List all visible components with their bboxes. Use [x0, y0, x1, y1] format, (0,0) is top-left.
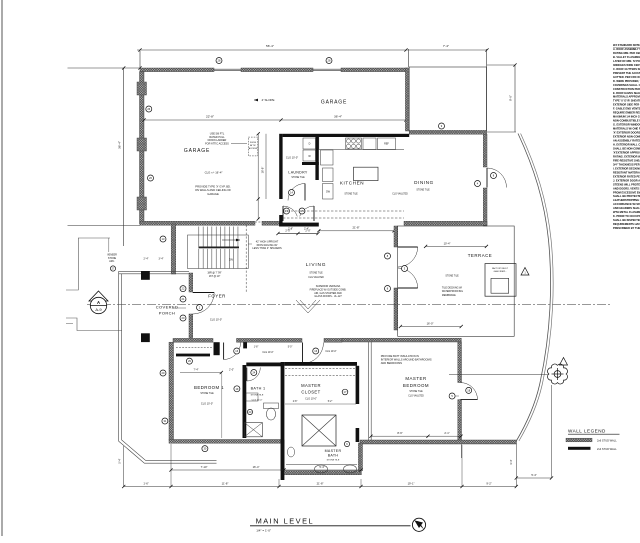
roofing notes column (right edge)	[613, 43, 640, 230]
svg-text:MASTER: MASTER	[405, 376, 426, 381]
laundry west wall upper	[279, 134, 282, 199]
svg-text:2'-8": 2'-8"	[293, 401, 298, 403]
closet east wall lower	[356, 428, 360, 442]
kitchen oven box	[363, 138, 376, 150]
svg-text:DINING: DINING	[414, 180, 434, 185]
kitchen floor break dashed lines	[283, 210, 404, 212]
svg-text:2'-8": 2'-8"	[288, 227, 293, 230]
svg-text:H. EXTERIOR WALL COVERING MATE: H. EXTERIOR WALL COVERING MATERIALS	[613, 143, 640, 147]
svg-text:1'-6": 1'-6"	[143, 481, 148, 485]
keynote triangle above tree	[560, 358, 568, 366]
hall east wall thin double line	[367, 342, 369, 442]
terrace french door lower	[398, 268, 418, 288]
svg-text:MASTER: MASTER	[301, 383, 321, 388]
veneer leader line	[108, 238, 110, 252]
section marker A/A-9	[89, 291, 108, 314]
svg-text:MATERIALS APPROVED FOR A MIN.: MATERIALS APPROVED FOR A MIN. 1-HR OR	[613, 95, 640, 99]
svg-text:ATTIC: ATTIC	[250, 144, 256, 147]
master bedroom north wall	[342, 338, 461, 342]
svg-text:GARAGE: GARAGE	[184, 148, 210, 154]
kitchen west counter with sink	[321, 150, 334, 165]
keynote 9 in stoop	[439, 123, 445, 129]
dashed line stair/foyer	[245, 225, 247, 292]
svg-text:TILE DECKING W/: TILE DECKING W/	[442, 287, 463, 290]
keynote 17 closet hall	[342, 389, 348, 395]
master bath south wall (hatched)	[284, 471, 361, 475]
dining north wall (hatched)	[409, 130, 486, 134]
svg-text:21'-8": 21'-8"	[352, 226, 359, 230]
svg-text:10'-4": 10'-4"	[444, 241, 451, 245]
extension line x408	[408, 49, 410, 67]
tree/shrub symbol with cross	[548, 364, 568, 384]
keynote 13 at garage south wall	[160, 236, 166, 242]
svg-text:MAXIMUM 1/4 INCH CORROSION: MAXIMUM 1/4 INCH CORROSION	[613, 115, 640, 119]
keynote 30 below bedroom1	[202, 446, 208, 452]
svg-text:36'-4": 36'-4"	[334, 115, 342, 119]
keynote 3 terrace doors	[402, 266, 408, 272]
porch post lower (black square)	[141, 333, 150, 342]
keynote 14 in laundry	[289, 190, 295, 196]
svg-text:B. VALLEY FLASHING SHALL BE IN: B. VALLEY FLASHING SHALL BE INSTALLED OV…	[613, 55, 640, 59]
laundry south wall	[279, 223, 319, 227]
svg-text:A-9: A-9	[95, 307, 102, 312]
garage south wall east of door	[262, 221, 281, 225]
keynote 23 bath1	[247, 409, 252, 414]
pilaster on garage west wall upper	[137, 82, 147, 95]
svg-text:LAUNDRY: LAUNDRY	[288, 171, 308, 175]
closet east wall upper	[356, 366, 360, 404]
svg-text:GARAGE: GARAGE	[207, 192, 219, 196]
svg-text:PORCH: PORCH	[159, 311, 175, 316]
svg-text:STONE TILE: STONE TILE	[309, 273, 323, 275]
svg-text:3'-4": 3'-4"	[509, 459, 513, 464]
svg-text:WALL LEGEND: WALL LEGEND	[568, 429, 606, 434]
svg-text:11'-8": 11'-8"	[222, 481, 229, 485]
terrace french door upper	[398, 247, 418, 267]
svg-text:RATING. EXTERIOR WALLS SHALL H: RATING. EXTERIOR WALLS SHALL HAVE	[613, 154, 640, 158]
svg-text:CONSTRUCTION PER CBC 705A TYP.: CONSTRUCTION PER CBC 705A TYP.	[613, 87, 640, 91]
master wc toilet	[287, 447, 294, 457]
closet north wall	[284, 362, 357, 366]
bath1 toilet	[264, 403, 279, 409]
dining south wall (hatched)	[404, 221, 487, 225]
svg-text:EXTERIOR NON-COMBUSTIBLE OR BE: EXTERIOR NON-COMBUSTIBLE OR BE	[613, 135, 640, 139]
svg-text:AN ASSEMBLY RATED 20 MINUTES M: AN ASSEMBLY RATED 20 MINUTES MIN.	[613, 139, 640, 143]
svg-text:FACTORY BUILT: FACTORY BUILT	[492, 267, 509, 270]
svg-text:AND DOORS. VENTS SHALL RESIST: AND DOORS. VENTS SHALL RESIST	[613, 186, 640, 190]
legend 2x4 black bar	[568, 447, 591, 450]
dimension line 56'-4" overall top	[137, 49, 487, 51]
svg-text:MASTER: MASTER	[325, 449, 342, 453]
hall south wall east segment	[324, 338, 342, 342]
garage north wall west segment	[140, 68, 214, 72]
keynote 16 at bedroom1 door	[234, 348, 240, 354]
laundry shelf wall	[302, 162, 319, 165]
svg-text:CLOSET: CLOSET	[301, 390, 320, 395]
dining east door to terrace	[487, 168, 507, 188]
master bath east wall (hatched)	[358, 443, 362, 471]
hall south wall west segment (bedroom1 north)	[173, 338, 213, 342]
svg-text:AND BEDROOMS: AND BEDROOMS	[381, 361, 403, 365]
wall between garage and front stoop (vertical, east end)	[405, 68, 409, 131]
svg-text:TYPE 'X' GYP. SHEATHING ON THE: TYPE 'X' GYP. SHEATHING ON THE	[613, 99, 640, 103]
svg-text:STONE TILE: STONE TILE	[445, 276, 459, 278]
dim row y470	[171, 469, 361, 471]
svg-text:FIRE-RESISTIVE SHEATHING MIN.: FIRE-RESISTIVE SHEATHING MIN.	[613, 158, 640, 162]
svg-text:'X'EXTERIOR APPROVED W/ A 1-HO: 'X'EXTERIOR APPROVED W/ A 1-HOUR	[613, 151, 640, 155]
svg-text:REF: REF	[384, 143, 389, 146]
svg-text:FOYER: FOYER	[208, 294, 226, 299]
svg-text:7'-4": 7'-4"	[443, 44, 449, 48]
svg-text:KITCHEN: KITCHEN	[340, 181, 364, 186]
dim 16'-0 terrace bottom	[400, 326, 461, 328]
svg-text:STONE TILE: STONE TILE	[416, 190, 430, 192]
garage service door opening	[255, 221, 278, 223]
attic access dashed box	[248, 137, 257, 156]
keynote 6 master bath	[344, 441, 349, 446]
svg-text:1/4" = 1'-0": 1/4" = 1'-0"	[256, 528, 271, 532]
keynote 26 on garage west wall	[146, 106, 152, 112]
door jamb at bedroom1 door	[214, 342, 220, 355]
svg-text:16T @ 10": 16T @ 10"	[209, 275, 220, 278]
master bath west wall	[281, 440, 285, 471]
svg-text:BEDROOM: BEDROOM	[403, 383, 429, 388]
svg-text:CLG 10'-0": CLG 10'-0"	[201, 403, 213, 406]
refrigerator box	[378, 138, 396, 150]
svg-text:FOR ATTIC ACCESS: FOR ATTIC ACCESS	[205, 142, 229, 145]
keynote 29 left of bedroom1	[160, 370, 166, 376]
pilaster on garage west wall lower	[137, 197, 147, 210]
svg-text:2'-4": 2'-4"	[304, 227, 309, 230]
svg-text:21'-8": 21'-8"	[317, 481, 324, 485]
keynote 26 lower on garage west wall	[148, 175, 154, 181]
master bath shower big X	[302, 415, 336, 446]
dim row y486 overall	[124, 486, 517, 488]
svg-text:PROVIDE TYPE 'X' GYP. BD.: PROVIDE TYPE 'X' GYP. BD.	[195, 185, 231, 189]
keynote bubble 28 over window W1	[216, 58, 222, 64]
keynote 24 bath1	[251, 370, 257, 376]
svg-text:CLG 10'-0": CLG 10'-0"	[325, 351, 336, 353]
keynote 8 dining door	[491, 173, 497, 179]
leader to attic access	[231, 142, 247, 144]
svg-text:9'-2": 9'-2"	[486, 481, 491, 485]
svg-text:E. ROOF EAVES SHALL BE PROTECT: E. ROOF EAVES SHALL BE PROTECTED W/	[613, 91, 640, 95]
laundry east wall upper	[315, 137, 318, 181]
garage north wall middle segment	[241, 68, 313, 72]
svg-text:STEENS WILL PROTECT ALL OPENIN: STEENS WILL PROTECT ALL OPENINGS	[613, 182, 640, 186]
svg-text:CLG VAULTED: CLG VAULTED	[308, 276, 324, 279]
svg-text:5'-4": 5'-4"	[531, 473, 536, 477]
svg-text:ARC.: ARC.	[109, 260, 115, 263]
extension from master wall corner	[460, 444, 462, 458]
svg-text:PREVENT THE ACCUMULATION OF LE: PREVENT THE ACCUMULATION OF LEAVES IN	[613, 71, 640, 75]
vertical dim line x258 garage/laundry hall	[257, 134, 259, 219]
stair hall west wall	[171, 224, 176, 274]
svg-text:I. EXTERIOR DECKING SHALL BE I: I. EXTERIOR DECKING SHALL BE IGNITION	[613, 166, 640, 170]
svg-text:PROM EXCESSIVE EMBER INTRUSION: PROM EXCESSIVE EMBER INTRUSION	[613, 190, 640, 194]
svg-text:D: D	[309, 143, 311, 146]
porch/deck edge double line	[119, 331, 217, 464]
svg-text:TERRACE: TERRACE	[468, 253, 492, 258]
keynote 20 at foyer wall	[180, 315, 186, 321]
svg-text:5'-4": 5'-4"	[118, 458, 122, 463]
thin line extending left from garage south wall	[68, 225, 141, 227]
north arrow	[412, 518, 425, 531]
svg-text:STONE TILE: STONE TILE	[251, 395, 264, 397]
svg-text:30X30: 30X30	[250, 142, 257, 144]
svg-text:7'-10": 7'-10"	[201, 465, 208, 469]
hall door to master vestibule swing	[303, 343, 324, 364]
svg-text:A. ROOF ASSEMBLY SHALL PROVIDE: A. ROOF ASSEMBLY SHALL PROVIDE CLASS A F…	[613, 47, 640, 51]
window W1 in garage north wall	[214, 68, 241, 70]
svg-text:WATERPROOFING: WATERPROOFING	[442, 290, 463, 293]
dim line in bedroom1 7'-4 / 2'-0	[180, 372, 221, 374]
svg-text:5'-4": 5'-4"	[319, 465, 324, 469]
svg-text:16'-8": 16'-8"	[261, 167, 265, 174]
svg-text:LATER OF MIN. 72 POUND CAP SHE: LATER OF MIN. 72 POUND CAP SHEET RUNNING	[613, 59, 640, 63]
svg-text:RATING MIN. PER CBC 1505.2 TYP: RATING MIN. PER CBC 1505.2 TYP.	[613, 51, 640, 55]
svg-text:22'-8": 22'-8"	[206, 115, 214, 119]
closet rod dashed lines	[285, 368, 356, 370]
svg-text:DN: DN	[229, 258, 233, 262]
svg-text:2x4 STUD WALL: 2x4 STUD WALL	[597, 447, 617, 451]
keynote 15 hall door	[284, 208, 290, 214]
stair up arrow	[222, 239, 240, 241]
svg-text:MATERIALS W/ ONE PANE TEMPERED: MATERIALS W/ ONE PANE TEMPERED MIN.	[613, 127, 640, 131]
bedroom1 closet header (black bar + dashed rod)	[176, 354, 210, 357]
master bedroom south wall extending to SE corner	[360, 440, 517, 444]
dining east wall upper	[483, 134, 487, 167]
driveway curve (double arc) right side	[516, 134, 550, 442]
svg-text:16'-0": 16'-0"	[427, 321, 434, 325]
master bath double sinks	[315, 465, 328, 473]
svg-text:C. ROOF GUTTERS SHALL BE PROVI: C. ROOF GUTTERS SHALL BE PROVIDED TO	[613, 67, 640, 71]
living east wall lower segment	[394, 288, 398, 330]
keynote 5 at master door	[449, 393, 455, 399]
bedroom1 entry door swing	[224, 343, 241, 360]
pilaster on garage west wall middle	[137, 138, 147, 151]
keynote triangle at terrace	[521, 268, 529, 276]
svg-text:BEDROOM 1: BEDROOM 1	[194, 385, 224, 390]
bedroom1 south wall	[169, 440, 284, 444]
laundry appliance boxes W/D	[303, 138, 316, 149]
thin line y132 stoop bottom to curve start	[409, 131, 516, 133]
keynote 27 veneer stone	[110, 266, 115, 271]
leader from covered porch	[173, 307, 186, 309]
dim 10'-4 terrace top	[426, 245, 487, 247]
outdoor fireplace box	[485, 264, 516, 297]
svg-text:ON WALLS AND CEILING OF: ON WALLS AND CEILING OF	[195, 188, 231, 192]
laundry door swing	[288, 184, 305, 201]
sheet border left edge	[1, 0, 3, 536]
keynote bubble 28 over window W2	[326, 58, 332, 64]
extension line left of garage	[68, 67, 141, 69]
svg-text:ACCESS: ACCESS	[249, 147, 258, 150]
terrace outline	[398, 226, 515, 336]
section cut line A/A-9 across plan	[87, 304, 610, 306]
legend 2x6 hatched bar	[566, 438, 592, 442]
svg-text:2'-4": 2'-4"	[144, 258, 149, 261]
dim 2'-8 2'-4 over hall	[278, 233, 318, 235]
svg-text:19'-1": 19'-1"	[408, 481, 415, 485]
svg-text:GLASS DOORS - UL-127: GLASS DOORS - UL-127	[314, 295, 342, 298]
svg-text:WJ STANDARD NOTES FOR ROOFING: WJ STANDARD NOTES FOR ROOFING	[613, 43, 640, 47]
kitchen north wall (2x4 black)	[283, 134, 410, 137]
vertical dim line x266	[265, 134, 267, 199]
laundry west wall lower	[279, 215, 282, 227]
svg-text:K. PRIOR TO OCCUPANCY THE SITE: K. PRIOR TO OCCUPANCY THE SITE	[613, 214, 640, 218]
foyer west wall lower	[189, 314, 193, 338]
svg-text:MAIN LEVEL: MAIN LEVEL	[256, 516, 315, 525]
svg-text:CLG 10'-0": CLG 10'-0"	[305, 398, 317, 401]
svg-text:G. EXTERIOR WINDOWS SHALL BE D: G. EXTERIOR WINDOWS SHALL BE DUAL PANE	[613, 123, 640, 127]
svg-text:STONE TILE: STONE TILE	[409, 391, 423, 393]
svg-text:LEATHERSTRIPPING MATERIALS IN: LEATHERSTRIPPING MATERIALS IN	[613, 198, 640, 202]
keynote 18 at master door	[466, 387, 472, 393]
svg-text:REQUIREMENTS HAVE BEEN MET AS: REQUIREMENTS HAVE BEEN MET AS	[613, 222, 640, 226]
keynote 8 terrace door lower	[385, 286, 391, 292]
svg-text:9'-6": 9'-6"	[509, 95, 513, 101]
svg-text:36'-4": 36'-4"	[118, 141, 122, 149]
hall door left swing	[283, 206, 297, 221]
master bedroom door to yard	[461, 383, 478, 400]
svg-text:CLG +/- 16'-4": CLG +/- 16'-4"	[205, 171, 223, 175]
svg-text:CLG 10'-0": CLG 10'-0"	[210, 319, 222, 322]
keynote 8 terrace door upper	[385, 253, 391, 259]
porch top edge	[119, 270, 189, 272]
garage west wall	[140, 72, 145, 224]
master bath counter line	[286, 464, 357, 466]
svg-text:J. EXTERIOR DOOR AND WINDOW: J. EXTERIOR DOOR AND WINDOW	[613, 178, 640, 182]
garage north wall east segment	[341, 68, 409, 72]
svg-text:STONE TILE: STONE TILE	[200, 393, 214, 395]
svg-text:GARAGE: GARAGE	[321, 100, 347, 106]
svg-text:D. WERE PROVIDED, VALLEYS AND: D. WERE PROVIDED, VALLEYS AND ROOF	[613, 79, 640, 83]
extension lines for bottom dims	[170, 444, 172, 487]
svg-text:ACCORDANCE W/ SFM 12-7A-1 SILL: ACCORDANCE W/ SFM 12-7A-1 SILLS	[613, 202, 640, 206]
dim line in closet	[285, 403, 356, 405]
svg-text:RESISTANT MATERIAL APPROVED AN: RESISTANT MATERIAL APPROVED AND	[613, 170, 640, 174]
svg-text:INTERIOR WALLS AROUND BATHROOM: INTERIOR WALLS AROUND BATHROOMS	[381, 358, 432, 362]
dim line master bedroom south	[371, 435, 461, 437]
vertical dim line 36'-4" left	[123, 68, 125, 246]
dining east wall lower	[483, 188, 487, 226]
bath1 west wall	[243, 365, 247, 438]
svg-text:'X' EXTERIOR DOORS SHALL BE AP: 'X' EXTERIOR DOORS SHALL BE APPROVED	[613, 131, 640, 135]
keynote 31 on deck	[162, 418, 168, 424]
front stoop outline (thin rect top-right)	[409, 67, 486, 131]
vertical dim extension from tree	[551, 385, 553, 478]
svg-text:NON-COMBUSTIBLE MESH PER 706A.: NON-COMBUSTIBLE MESH PER 706A.2	[613, 119, 640, 123]
svg-text:GAS FIREPL.: GAS FIREPL.	[494, 270, 507, 273]
svg-text:AND HEADERS SHALL BE FLASHED: AND HEADERS SHALL BE FLASHED	[613, 206, 640, 210]
garage south wall west of door	[140, 221, 255, 225]
svg-text:STONE TILE: STONE TILE	[327, 460, 340, 462]
svg-text:36INCHES WIDE CENTERED IN THE: 36INCHES WIDE CENTERED IN THE VALLEY TYP…	[613, 63, 640, 67]
svg-text:5'-2": 5'-2"	[328, 401, 333, 403]
stair treads lower run	[198, 249, 200, 269]
master bedroom east wall lower	[458, 400, 462, 443]
kitchen island	[354, 167, 379, 180]
living fireplace chevrons	[296, 300, 320, 313]
svg-text:GUTTER. PER CRC R337.5.4 TYP.: GUTTER. PER CRC R337.5.4 TYP.	[613, 75, 640, 79]
svg-text:CLG VAULTED: CLG VAULTED	[408, 395, 424, 398]
left site lines upper L	[66, 238, 110, 290]
svg-text:EXTERIOR RATED PER CBC 709A TY: EXTERIOR RATED PER CBC 709A TYP.	[613, 174, 640, 178]
svg-text:16'-4": 16'-4"	[253, 465, 260, 469]
living east wall upper segment	[394, 226, 398, 247]
extension SE corner down	[515, 444, 517, 487]
stair outline box	[188, 235, 249, 269]
svg-text:3/4" THICKNESS PER CBC 707A TY: 3/4" THICKNESS PER CBC 707A TYP.	[613, 162, 640, 166]
keynote 19 left of bath1	[234, 386, 240, 392]
front entry door swing	[193, 293, 215, 315]
svg-text:2'-0": 2'-0"	[229, 369, 234, 372]
svg-text:WTH METAL FLASHING AT ALL SIDE: WTH METAL FLASHING AT ALL SIDES	[613, 210, 640, 214]
bath1 shower with X	[244, 423, 262, 437]
keynote 4 dining wall	[475, 181, 481, 187]
bath1 door swing	[247, 368, 260, 382]
svg-text:COVERINGS SHALL COMPLY W/ CLAS: COVERINGS SHALL COMPLY W/ CLASS A	[613, 83, 640, 87]
site step lines lower left	[66, 318, 122, 331]
svg-text:SHALL BE PROTECTED W/ APPROVED: SHALL BE PROTECTED W/ APPROVED	[613, 194, 640, 198]
vertical dim right x515	[514, 65, 516, 132]
svg-text:BATH 1: BATH 1	[251, 387, 266, 391]
svg-text:CLG VAULTED: CLG VAULTED	[392, 193, 408, 196]
svg-text:LESS THAN 4" SPACERS: LESS THAN 4" SPACERS	[252, 247, 282, 250]
svg-text:56'-4": 56'-4"	[266, 44, 274, 48]
title underline	[250, 525, 411, 527]
svg-text:1'-8": 1'-8"	[254, 347, 259, 349]
extension line right x486	[486, 49, 488, 131]
porch post upper (black square)	[141, 271, 150, 280]
svg-text:MEMBRANE: MEMBRANE	[442, 294, 456, 297]
cooktop burners	[346, 139, 350, 143]
svg-text:REQUIRE EMBER RESISTANT VENTS: REQUIRE EMBER RESISTANT VENTS AT A	[613, 111, 640, 115]
kitchen counter edge	[319, 149, 404, 151]
keynote 29 bedroom1 nw	[186, 358, 192, 364]
svg-text:COVERED: COVERED	[156, 305, 179, 310]
vertical extension in bedroom1	[221, 373, 223, 439]
svg-text:PROVIDE BATT INSULATION IN: PROVIDE BATT INSULATION IN	[381, 354, 419, 358]
door jamb east of bedroom1 door	[243, 342, 247, 348]
svg-text:7'-4": 7'-4"	[194, 369, 199, 372]
closet west wall / bath wall	[281, 362, 285, 480]
dim line 21'-8 below kitchen	[319, 230, 394, 232]
svg-text:F. GABLE END VENTS ARE NOT ALL: F. GABLE END VENTS ARE NOT ALLOWED.	[613, 107, 640, 111]
keynote 16 at vestibule door	[313, 348, 319, 354]
keynote 2 entry door	[197, 305, 203, 311]
svg-text:SHALL BE INSPECTED TO VERIFY A: SHALL BE INSPECTED TO VERIFY ALL	[613, 218, 640, 222]
stair treads upper run	[198, 227, 200, 247]
keynote 22 at foyer wall	[180, 286, 186, 292]
stair landing rail (dark)	[199, 247, 240, 249]
svg-text:BATH: BATH	[328, 454, 339, 458]
master bedroom east wall upper	[458, 342, 462, 383]
svg-text:3'-4": 3'-4"	[159, 258, 164, 261]
svg-text:4' SLOPE: 4' SLOPE	[261, 98, 274, 102]
dim line 22'-8" / 36'-4"	[144, 119, 406, 121]
svg-text:EXTERIOR SIDE PER CBC 707A.3 T: EXTERIOR SIDE PER CBC 707A.3 TYP.	[613, 103, 640, 107]
svg-text:CLG 10'-0": CLG 10'-0"	[262, 352, 273, 354]
foyer west wall upper	[189, 273, 193, 292]
svg-text:2x6 STUD WALL: 2x6 STUD WALL	[597, 439, 617, 443]
keynote 21 at foyer wall	[180, 296, 186, 302]
svg-text:5'-0": 5'-0"	[288, 347, 293, 349]
svg-text:8'-6": 8'-6"	[397, 431, 402, 435]
svg-text:PRESCRIBED BY THE FIRE MARSHAL: PRESCRIBED BY THE FIRE MARSHAL	[613, 226, 640, 230]
keynote 15 hall door right	[299, 208, 305, 214]
